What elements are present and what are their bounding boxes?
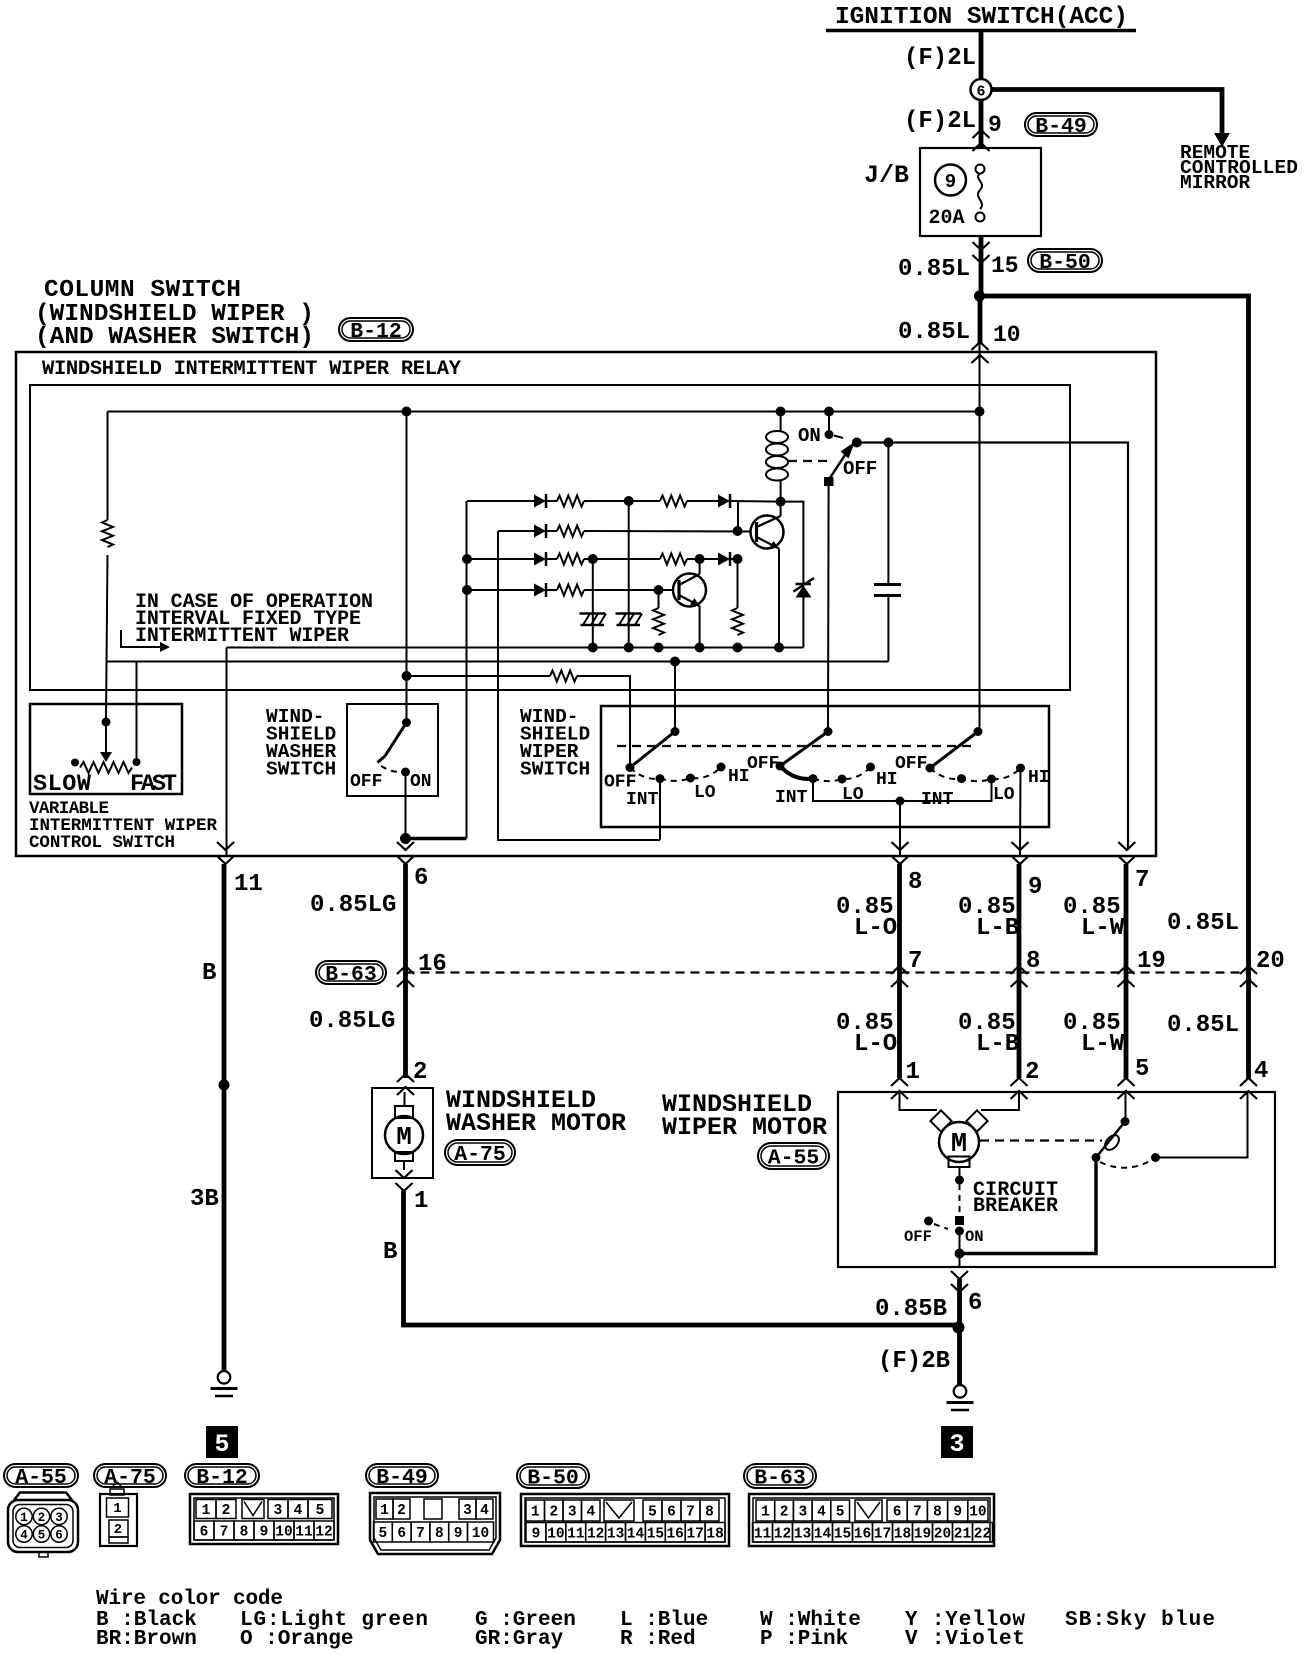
svg-text:1: 1 [761,1505,770,1521]
svg-text:WASHER MOTOR: WASHER MOTOR [446,1109,626,1138]
svg-text:L-O: L-O [854,915,897,942]
svg-text:11: 11 [754,1527,772,1543]
svg-text:B: B [383,1239,397,1266]
wire row1 to coil node [730,500,781,503]
svg-text:OFF: OFF [350,772,382,792]
wire B ground lead from pin 11 [222,864,227,1372]
wire gang2 INT and gang3 LO to pin 8 [813,779,992,801]
svg-text:15: 15 [991,253,1019,279]
junction dot main feed split [974,291,985,302]
diode D2 [718,495,730,508]
windshield washer motor box [372,1088,433,1178]
wire gang1 INT drop [659,779,661,840]
svg-text:7: 7 [416,1526,425,1542]
svg-text:2: 2 [413,1059,427,1086]
connector chevrons B-63 pins 7 8 19 20 [891,966,908,987]
svg-text:21: 21 [954,1527,972,1543]
relay contact arm with arrowhead [824,442,855,487]
svg-text:2: 2 [1025,1059,1039,1086]
diode D4 [534,553,546,566]
resistor R3 [660,496,687,507]
wire main feed vertical to wiper switch common [979,344,981,732]
resistor R9 vertical [737,559,739,608]
wire resistor R1 to pot wiper [106,555,108,718]
svg-text:B-49: B-49 [1035,115,1087,139]
relay fixed contact ON [825,414,844,440]
svg-text:8: 8 [705,1505,714,1521]
column switch outer box [16,352,1156,856]
junction dot row3 to Q2 collector [695,554,705,564]
svg-text:A-55: A-55 [15,1466,67,1490]
junction dot washer common at y676 [402,671,412,681]
resistor R8 vertical [658,590,660,608]
gang3 OFF contact dot [926,764,935,773]
svg-text:6: 6 [397,1526,406,1542]
dashed arc breaker OFF [934,1224,948,1229]
svg-text:15: 15 [647,1527,664,1543]
gang1 HI contact dot [717,763,726,772]
breaker ON contact dot [955,1227,964,1236]
svg-text:13: 13 [794,1527,811,1543]
svg-text:19: 19 [1137,948,1166,975]
svg-text:SWITCH: SWITCH [266,759,336,781]
svg-text:14: 14 [814,1527,832,1543]
svg-text:20: 20 [934,1527,951,1543]
connector B-49 label [1025,113,1097,136]
note L-arrow [121,630,170,652]
wire resistor R1 leg to pot wiper dot [102,718,111,727]
wire Q2 emitter to bottom bus [699,606,701,648]
gang2 HI contact dot [866,763,875,772]
wire common return line y662 [107,661,889,663]
diode D1 [534,495,546,508]
svg-text:SWITCH: SWITCH [520,759,590,781]
connector chevrons B-12 pin 8 [892,842,909,864]
connector B-12 reference label [185,1464,259,1487]
svg-text:4: 4 [817,1505,826,1521]
svg-text:10: 10 [472,1526,489,1542]
connector chevrons B-12 pin 11 [217,842,234,864]
gang2 OFF contact dot [776,762,785,771]
wire resistor R10 to gang1 OFF contact [577,676,630,764]
svg-text:L-O: L-O [854,1031,897,1058]
connector B-50 label [1028,249,1102,272]
svg-text:9: 9 [260,1525,269,1541]
gang2 dashed contact arc [813,767,871,781]
svg-text:6: 6 [414,865,428,892]
arrowhead to remote controlled mirror [1214,133,1230,147]
wire breaker to pin 6 exit [959,1254,961,1268]
svg-text:2: 2 [222,1503,231,1519]
connector chevrons A-75 pin 1 [396,1170,413,1191]
junction dot ground node [953,1322,965,1334]
resistor R1 [102,520,113,547]
svg-text:7: 7 [908,948,922,975]
gang3 dashed contact arc [930,768,1021,781]
svg-text:12: 12 [774,1527,791,1543]
wire ground leg x628 [628,501,630,648]
svg-text:9: 9 [532,1527,541,1543]
wire 0.85L below fuse [979,236,984,298]
gang3 arm [930,732,978,769]
resistor R7 [557,585,584,596]
svg-text:6: 6 [976,84,985,101]
junction dot capacitor top [883,438,893,448]
connector chevrons B-12 pin 9 [1012,842,1029,864]
gang1 pivot dot [671,727,680,736]
diode D5 [718,553,730,566]
svg-text:10: 10 [547,1527,564,1543]
gang3 LO contact dot [987,775,996,784]
svg-text:12: 12 [315,1525,332,1541]
svg-text:B-12: B-12 [350,320,402,344]
wire breaker output to park switch common [960,1158,1097,1254]
junction dot row3 to ground leg [588,554,598,564]
svg-text:L-W: L-W [1081,1031,1125,1058]
svg-text:16: 16 [854,1527,871,1543]
wire pin 1 to motor brush left [900,1092,938,1110]
svg-text:L-W: L-W [1081,915,1125,942]
wire gang3 HI to pin 9 [1019,768,1022,856]
connector B-49 drawing [370,1493,500,1554]
wire 0.85L to column switch [978,296,983,344]
connector B-50 reference label [517,1464,589,1488]
svg-text:7: 7 [220,1525,229,1541]
svg-text:2: 2 [780,1505,789,1521]
svg-text:V :Violet: V :Violet [905,1628,1025,1651]
gang2 LO contact dot [838,775,847,784]
svg-text:1: 1 [20,1511,28,1525]
wiper motor M2 [939,1122,979,1167]
junction dot feed at bus [975,407,985,417]
svg-text:9: 9 [1028,874,1042,901]
svg-text:B-49: B-49 [376,1466,428,1490]
svg-text:5: 5 [379,1526,388,1542]
wire pin 5 to park switch pivot [1125,1092,1127,1122]
brush terminal left diamond [930,1110,951,1131]
svg-text:ON: ON [798,425,821,447]
ground symbol left [218,1371,231,1384]
wire ladder bus2 vertical and INT return [498,531,660,840]
wiper switch gang1 common riser [674,662,676,732]
wire 0.85L-B [1017,864,1022,1078]
gang1 INT contact dot [656,774,665,783]
wire washer common to gang1 OFF resistor line [407,675,551,677]
gang1 LO contact dot [686,774,695,783]
wire Q1 collector to coil node [780,502,782,516]
junction dot gang1 common at return line [670,657,680,667]
gang2 wiper thick arc OFF to INT [780,766,813,779]
svg-text:22: 22 [974,1527,991,1543]
wire row3 right end [730,558,738,560]
capacitor C1 [874,447,901,662]
svg-text:L-B: L-B [976,1031,1019,1058]
svg-text:4: 4 [20,1529,28,1543]
junction dot pin8 node [896,797,905,806]
connector B-49 reference label [366,1464,438,1487]
junction dot row3 at left bus [462,554,472,564]
svg-text:10: 10 [993,322,1021,348]
svg-text:0.85B: 0.85B [875,1296,947,1323]
breaker OFF contact dot [924,1217,933,1226]
junction dot coil top at bus [776,407,786,417]
connector B-63 label [316,961,386,984]
diode D3 [534,525,546,538]
wire 0.85L-W [1124,864,1129,1078]
svg-text:SLOW: SLOW [33,771,92,798]
svg-text:L-B: L-B [976,915,1019,942]
svg-text:8: 8 [908,869,922,896]
wire breaker to output junction [959,1231,961,1254]
gang2 pivot dot [824,727,833,736]
wire washer ON down to pin 6 [405,772,407,839]
connector chevrons A-55 pins 1 2 5 4 [891,1078,908,1099]
svg-text:3: 3 [55,1511,63,1525]
gang2 arm [780,732,828,767]
connector A-75 reference label [94,1464,166,1487]
svg-text:A-75: A-75 [104,1466,156,1490]
svg-text:0.85LG: 0.85LG [309,1008,395,1035]
svg-text:3: 3 [568,1505,577,1521]
svg-text:OFF: OFF [904,1228,932,1246]
wire relay contact arm to wiper switch gang2 common [827,486,830,732]
ground reference 3 black box [941,1426,973,1459]
svg-text:B-50: B-50 [1039,251,1091,275]
connector A-75 drawing [100,1482,137,1546]
transistor Q2 [673,574,706,607]
svg-text:2: 2 [38,1511,46,1525]
junction dot row1 to ground leg [624,496,634,506]
svg-text:9: 9 [454,1526,463,1542]
wire pin 2 to motor brush right [981,1092,1019,1110]
fuse F9 symbol [976,165,985,222]
svg-text:0.85L: 0.85L [1167,1012,1239,1039]
svg-text:INTERMITTENT WIPER: INTERMITTENT WIPER [135,625,349,648]
svg-text:INT: INT [626,790,659,810]
wire row2 of ladder network [498,530,534,532]
svg-text:1: 1 [414,1188,428,1215]
svg-text:WINDSHIELD INTERMITTENT WIPER: WINDSHIELD INTERMITTENT WIPER RELAY [42,358,462,381]
svg-text:A-55: A-55 [768,1146,820,1170]
svg-text:7: 7 [686,1505,695,1521]
connector chevrons B-12 pin 7 [1118,842,1135,864]
svg-text:2: 2 [114,1522,122,1538]
wire top supply bus of relay [108,411,980,413]
svg-text:B-12: B-12 [196,1466,248,1490]
wire row2 to transistor Q1 base [584,530,751,533]
dashed gang link line [617,745,976,747]
washer motor M1 [385,1106,423,1161]
internal ground hatch symbol 2 [616,612,642,615]
svg-text:LO: LO [694,783,716,803]
svg-text:18: 18 [706,1527,723,1543]
gang1 OFF contact dot [626,763,635,772]
windshield intermittent wiper relay box [30,385,1070,690]
junction dot breaker top [955,1176,964,1185]
relay coil L1 [766,412,788,502]
svg-text:7: 7 [1135,867,1149,894]
svg-text:3B: 3B [190,1186,219,1213]
svg-text:6: 6 [968,1290,982,1317]
wire washer switch common vertical [406,412,408,723]
connector B-12 drawing [190,1494,338,1544]
connector A-55 drawing [8,1493,78,1558]
wire washer node to ladder bus1 [406,837,467,841]
svg-text:M: M [396,1122,412,1152]
svg-text:8: 8 [1026,948,1040,975]
svg-text:10: 10 [969,1505,986,1521]
windshield wiper switch box [601,706,1049,827]
svg-text:19: 19 [914,1527,931,1543]
park switch arm with loop [1098,1122,1125,1156]
svg-text:OFF: OFF [895,754,927,774]
svg-text:0.85L: 0.85L [898,256,970,283]
ground reference 5 black box [206,1426,238,1459]
connector A-75 label [445,1140,515,1165]
svg-text:(F)2L: (F)2L [904,45,976,72]
svg-text:15: 15 [834,1527,851,1543]
svg-text:18: 18 [894,1527,911,1543]
svg-text:9: 9 [945,171,956,193]
svg-text:11: 11 [567,1527,585,1543]
dashed mechanical link coil to contact [788,460,833,462]
svg-text:5: 5 [1135,1056,1149,1083]
wire pot FAST terminal riser [136,662,138,764]
junction dot coil bottom / Q1 collector [776,497,786,507]
zener diode ZD1 [781,502,814,648]
connector B-63 reference label [744,1464,816,1488]
wire washer motor ground return [404,1191,959,1325]
wire (F)2L to junction block [979,100,984,148]
svg-text:B: B [202,960,216,987]
svg-text:0.85L: 0.85L [898,319,970,346]
svg-text:HI: HI [1028,768,1050,788]
svg-text:1: 1 [531,1505,540,1521]
junction block fuse box [920,148,1041,236]
svg-text:ON: ON [965,1228,984,1246]
breaker moving contact pad [955,1216,964,1225]
junction dot row3 at tie [733,554,743,564]
svg-text:A-75: A-75 [454,1143,506,1167]
connector chevrons B-63 pin 16 [397,966,414,987]
svg-text:B-50: B-50 [527,1466,579,1490]
gang3 INT contact dot [957,774,966,783]
svg-text:11: 11 [295,1525,313,1541]
svg-text:2: 2 [397,1503,406,1519]
svg-text:1: 1 [380,1503,389,1519]
wire into washer motor [404,1092,406,1106]
svg-text:LO: LO [993,785,1015,805]
dashed arc washer OFF to ON [381,766,400,772]
connector B-63 drawing [749,1494,994,1546]
wire park switch B contact to pin 4 [1156,1092,1248,1158]
wire 0.85L-O [897,864,902,1078]
svg-text:20A: 20A [929,207,965,230]
svg-text:5: 5 [214,1430,229,1459]
wire thick feed to wiper motor pin 4 [980,296,1249,1079]
wire Q2 collector to row3 [699,559,701,574]
svg-text:5: 5 [38,1529,46,1543]
junction dot washer pin6 node [400,833,411,844]
svg-text:16: 16 [418,951,447,978]
svg-text:8: 8 [435,1526,444,1542]
svg-text:IGNITION SWITCH(ACC): IGNITION SWITCH(ACC) [835,4,1128,31]
park switch B contact dot [1151,1153,1160,1162]
svg-text:BR:Brown: BR:Brown [96,1628,197,1651]
connector B-50 drawing [521,1494,729,1546]
resistor R2 [557,496,584,507]
gang1 dashed contact arc [630,767,721,781]
svg-text:5: 5 [316,1503,325,1519]
ground symbol right [954,1385,967,1398]
junction dot row4 at left bus [462,585,472,595]
svg-text:17: 17 [874,1527,891,1543]
diode D6 [534,584,546,597]
junction dots on bottom bus [588,643,784,653]
wire to remote controlled mirror [992,90,1223,134]
resistor R6 [660,554,687,565]
junction dot relay contact output [852,438,862,448]
svg-text:4: 4 [1254,1058,1268,1085]
wire ground leg x593 [592,559,594,648]
transistor Q1 [751,516,784,549]
windshield wiper motor box [838,1092,1275,1267]
internal ground hatch symbol 1 [580,612,606,615]
svg-text:ON: ON [410,772,432,792]
connector chevrons A-55 pin 6 [951,1271,968,1292]
junction dot row4 to resistor R8 [654,585,664,595]
wire row4 of ladder network [467,589,534,591]
connector chevrons pin 10 [972,342,989,363]
svg-text:7: 7 [913,1505,922,1521]
potentiometer SLOW/FAST [71,758,141,773]
svg-text:8: 8 [933,1505,942,1521]
svg-text:6: 6 [667,1505,676,1521]
wire ladder bus1 vertical [466,501,468,839]
svg-text:1: 1 [202,1503,211,1519]
wire row4 to transistor Q2 base [584,589,673,591]
svg-text:3: 3 [274,1503,283,1519]
svg-text:(F)2L: (F)2L [904,108,976,135]
circuit breaker dashed element [959,1184,961,1216]
connector B-12 label [339,318,413,341]
wire motor minus to breaker [959,1167,961,1180]
wire row1 of ladder network [467,500,534,502]
svg-text:0.85LG: 0.85LG [310,892,396,919]
gang3 pivot dot [974,727,983,736]
wire row1 middle [584,500,660,502]
svg-text:SB:Sky blue: SB:Sky blue [1065,1609,1215,1632]
connector A-55 label [758,1143,829,1169]
svg-text:GR:Gray: GR:Gray [475,1628,564,1651]
wire Q1 emitter to bottom bus [778,549,780,648]
svg-text:4: 4 [294,1503,303,1519]
svg-text:3: 3 [949,1430,964,1459]
svg-text:9: 9 [988,112,1002,138]
wire relay output to wiper motor line [857,443,1128,851]
svg-text:11: 11 [234,871,263,898]
wire row3 of ladder network [467,558,534,560]
svg-text:6: 6 [55,1529,63,1543]
svg-text:2: 2 [549,1505,558,1521]
dashed arc park switch travel [1100,1161,1150,1168]
svg-text:6: 6 [200,1525,209,1541]
wire 0.85LG washer feed [403,864,408,1078]
svg-text:OFF: OFF [843,458,877,480]
wire pin8 drop [899,801,901,856]
svg-text:MIRROR: MIRROR [1180,172,1251,194]
svg-text:14: 14 [627,1527,645,1543]
